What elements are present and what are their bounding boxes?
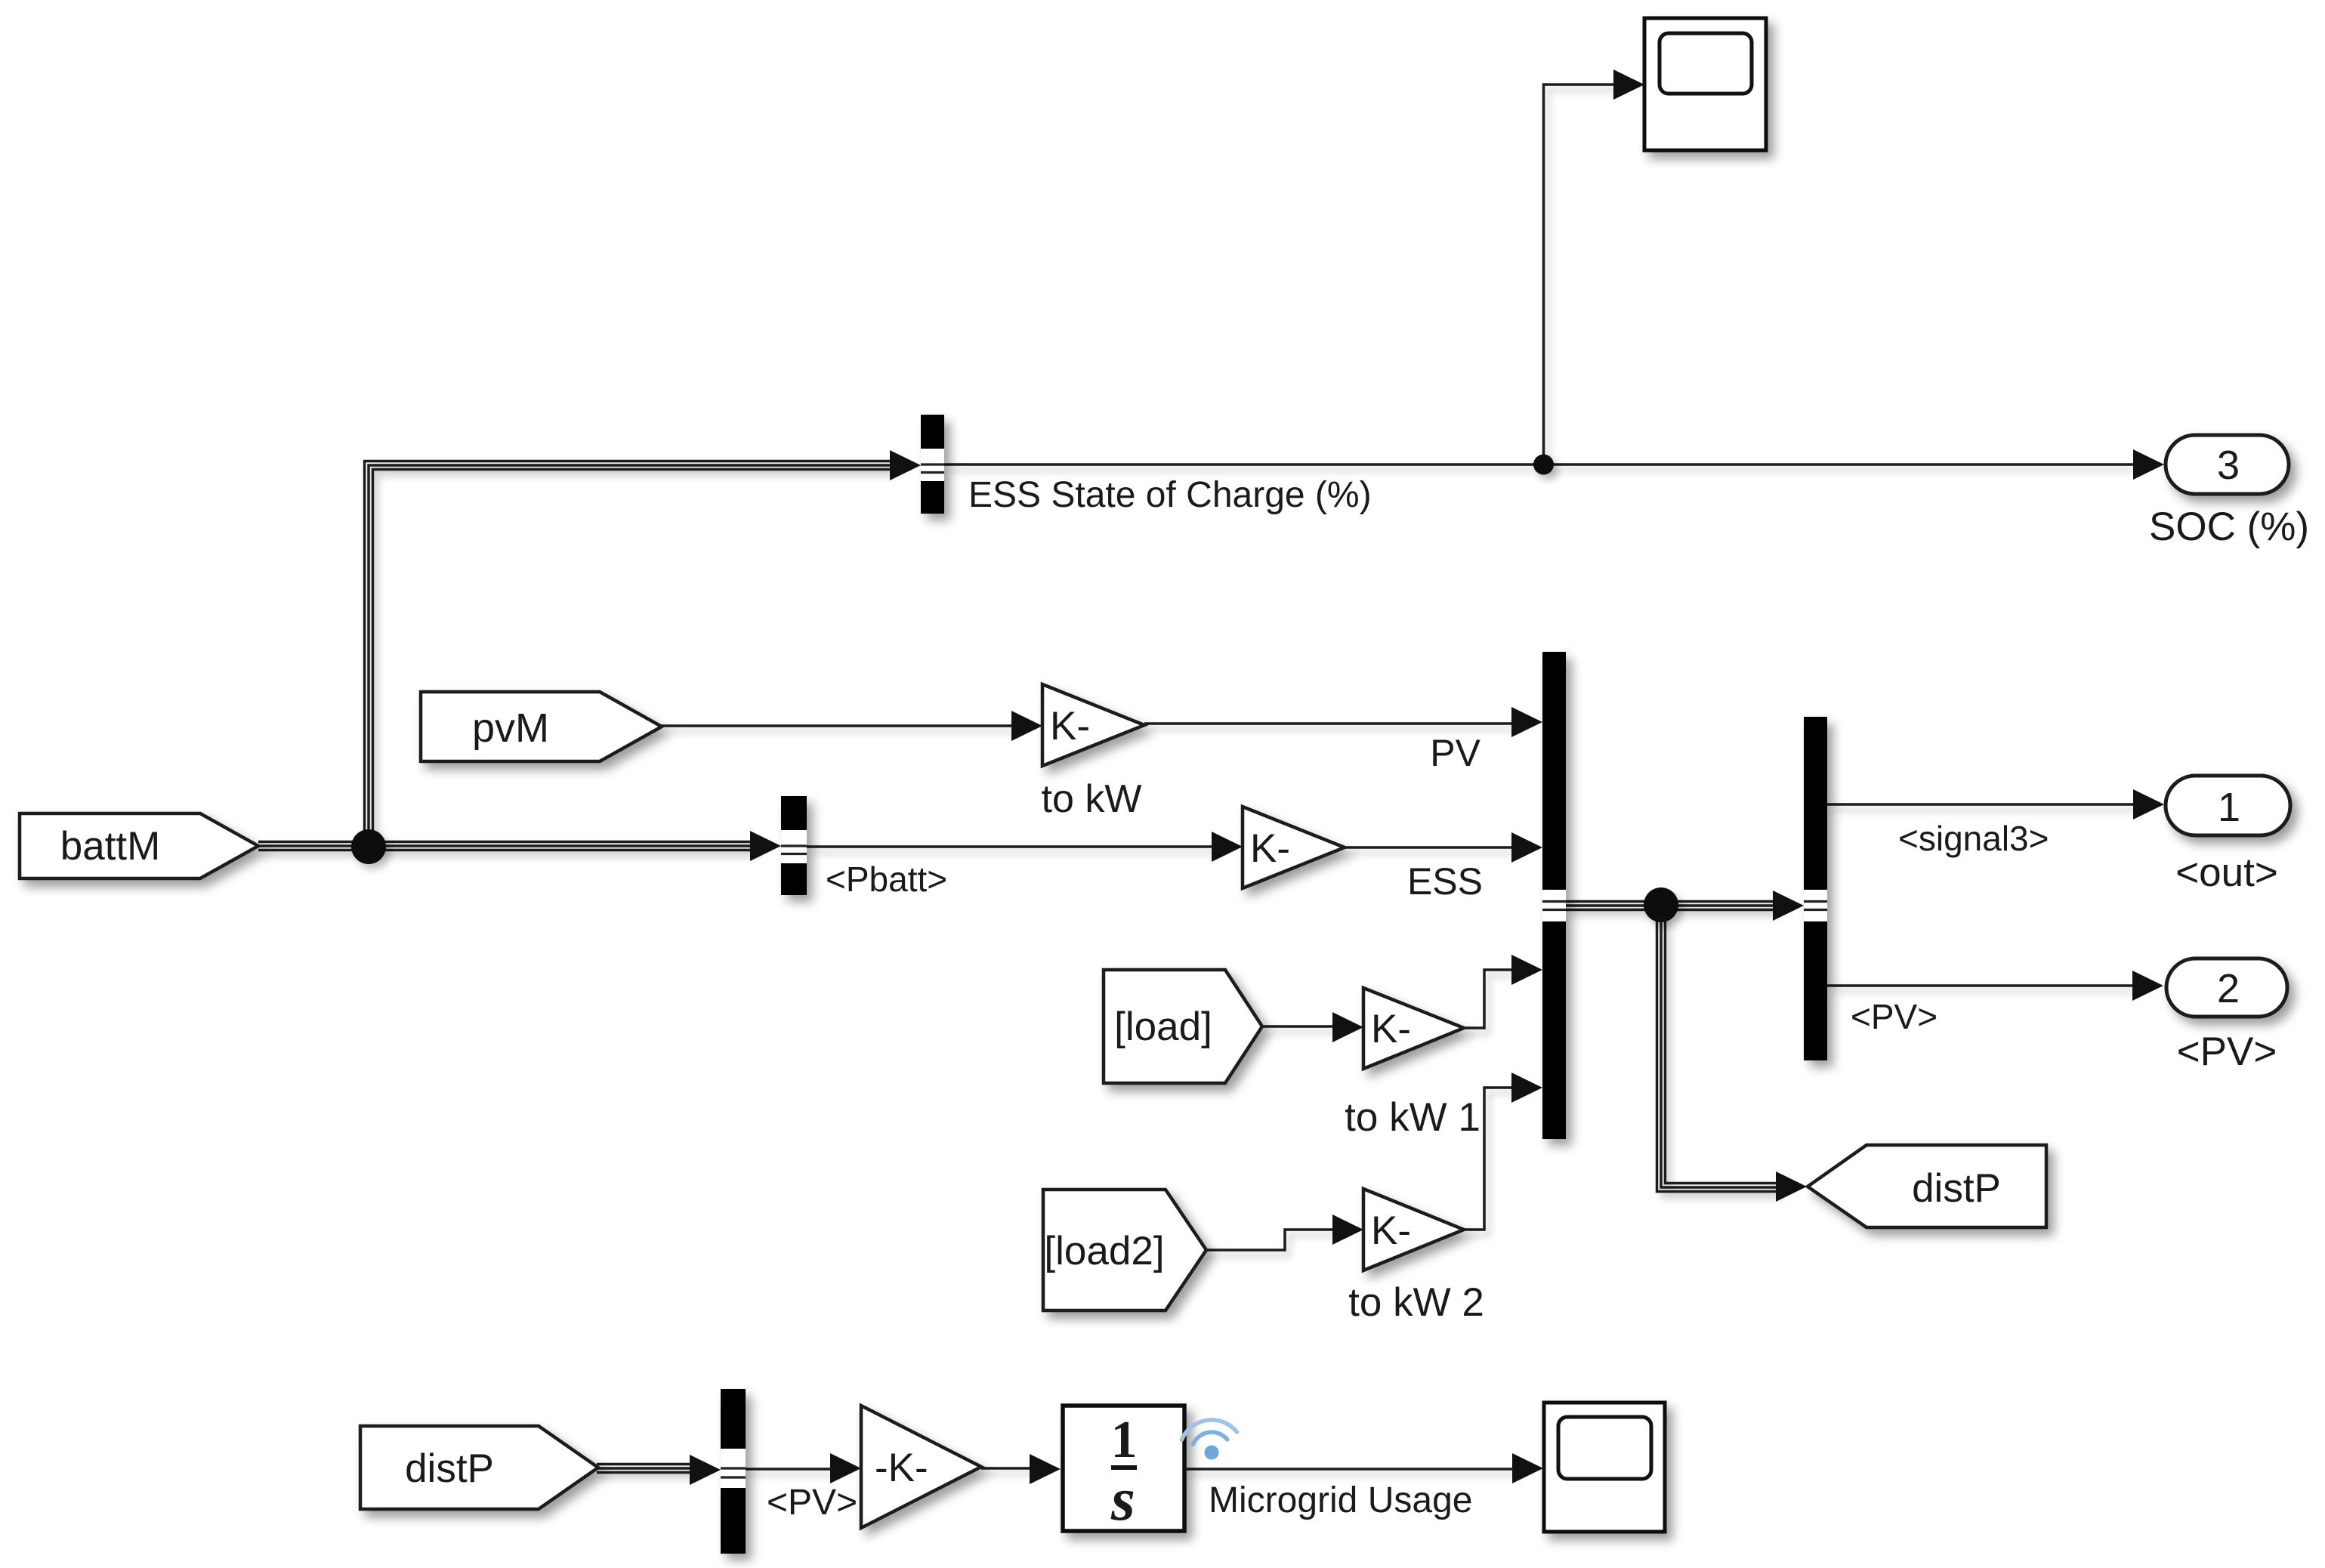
svg-text:Microgrid Usage: Microgrid Usage bbox=[1209, 1480, 1472, 1520]
svg-text:1: 1 bbox=[1111, 1411, 1138, 1469]
svg-text:-K-: -K- bbox=[875, 1446, 928, 1490]
svg-text:distP: distP bbox=[405, 1446, 494, 1491]
svg-text:distP: distP bbox=[1912, 1166, 2001, 1211]
svg-text:K-: K- bbox=[1371, 1208, 1411, 1253]
svg-text:<PV>: <PV> bbox=[2177, 1029, 2277, 1074]
svg-text:<PV>: <PV> bbox=[767, 1483, 857, 1523]
svg-text:2: 2 bbox=[2217, 966, 2240, 1011]
svg-text:K-: K- bbox=[1250, 826, 1290, 871]
svg-text:3: 3 bbox=[2217, 443, 2240, 488]
svg-text:ESS State of Charge (%): ESS State of Charge (%) bbox=[968, 475, 1372, 515]
svg-text:[load]: [load] bbox=[1114, 1005, 1212, 1049]
svg-text:to kW 1: to kW 1 bbox=[1345, 1095, 1481, 1140]
svg-text:SOC (%): SOC (%) bbox=[2149, 505, 2309, 549]
svg-text:PV: PV bbox=[1430, 732, 1481, 774]
svg-text:<signal3>: <signal3> bbox=[1898, 819, 2049, 858]
svg-text:pvM: pvM bbox=[472, 705, 549, 751]
svg-text:1: 1 bbox=[2218, 785, 2240, 830]
svg-text:s: s bbox=[1110, 1465, 1135, 1533]
svg-text:K-: K- bbox=[1371, 1007, 1411, 1051]
svg-text:to kW 2: to kW 2 bbox=[1348, 1280, 1484, 1325]
svg-text:<PV>: <PV> bbox=[1851, 997, 1937, 1036]
svg-text:to kW: to kW bbox=[1042, 777, 1142, 821]
svg-text:<out>: <out> bbox=[2175, 850, 2278, 895]
svg-text:battM: battM bbox=[60, 824, 161, 869]
svg-text:[load2]: [load2] bbox=[1044, 1229, 1164, 1273]
svg-text:K-: K- bbox=[1050, 704, 1090, 749]
svg-text:ESS: ESS bbox=[1407, 860, 1483, 903]
svg-text:<Pbatt>: <Pbatt> bbox=[826, 860, 947, 899]
